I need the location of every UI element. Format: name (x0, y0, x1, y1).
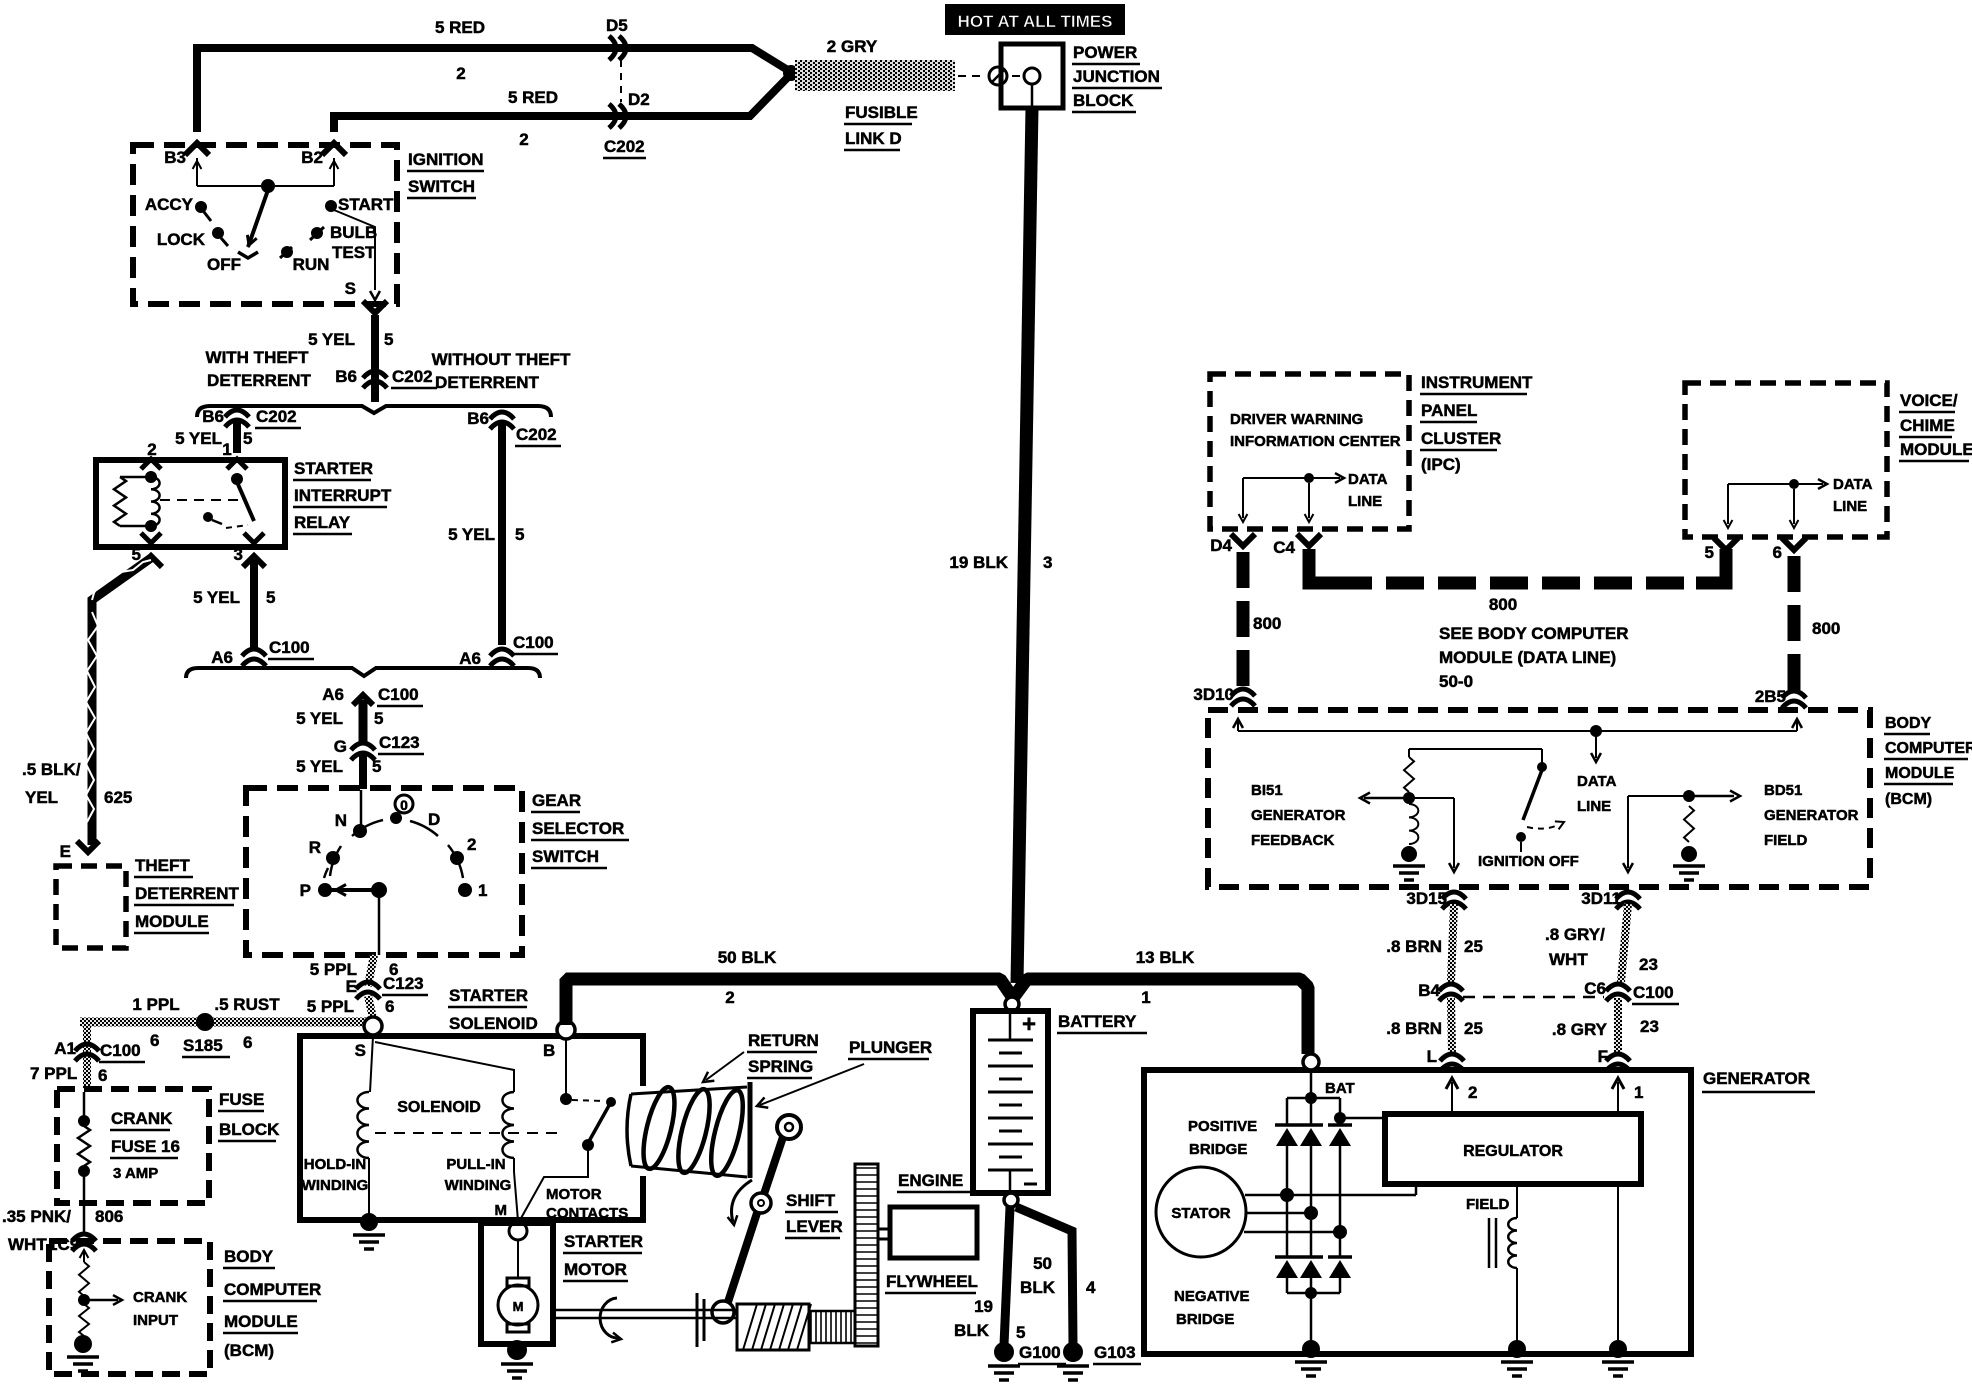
label INSTRUMENT PANEL CLUSTER (IPC) (1420, 373, 1533, 474)
contact 2 (450, 835, 476, 865)
wire 13 BLK into generator (1303, 1054, 1355, 1097)
shaft rotation arrow (600, 1298, 622, 1344)
label BATTERY (1057, 1012, 1147, 1033)
svg-text:FLYWHEEL: FLYWHEEL (886, 1272, 978, 1291)
contact ACCY (145, 195, 211, 221)
svg-text:5: 5 (384, 330, 393, 349)
svg-text:BATTERY: BATTERY (1058, 1012, 1137, 1031)
relay coil bottom junction (145, 520, 157, 532)
label .8 GRY 23 (1552, 1017, 1659, 1039)
svg-text:G103: G103 (1094, 1343, 1136, 1362)
label THEFT DETERRENT MODULE (134, 856, 240, 933)
svg-text:BLOCK: BLOCK (219, 1120, 280, 1139)
svg-text:FIELD: FIELD (1764, 832, 1807, 849)
svg-text:LEVER: LEVER (786, 1217, 843, 1236)
chevron into B2 (322, 143, 346, 155)
svg-text:5: 5 (374, 709, 383, 728)
svg-text:HOT AT ALL TIMES: HOT AT ALL TIMES (958, 12, 1113, 31)
svg-text:WITH THEFT: WITH THEFT (206, 348, 310, 367)
shift lever arrow (728, 1180, 752, 1226)
relay switch blade (203, 482, 254, 528)
selector arc (324, 820, 463, 878)
svg-text:B6: B6 (202, 407, 224, 426)
svg-text:3D15: 3D15 (1406, 889, 1447, 908)
field core bars (1489, 1218, 1496, 1268)
svg-text:RUN: RUN (293, 255, 330, 274)
label 5 YEL under A6 (296, 709, 383, 728)
data trunk 800 right (1788, 556, 1801, 690)
svg-text:SWITCH: SWITCH (408, 177, 475, 196)
negative bridge diodes (1275, 1257, 1352, 1278)
label .8 BRN 25 upper (1386, 937, 1483, 956)
selector wiper arm (330, 882, 387, 898)
svg-text:E: E (60, 842, 71, 861)
starter motor box (481, 1223, 553, 1344)
svg-text:CONTACTS: CONTACTS (546, 1205, 628, 1222)
label GENERATOR (1702, 1069, 1815, 1092)
label DATA LINE vcm (1833, 476, 1873, 515)
svg-text:FIELD: FIELD (1466, 1196, 1509, 1213)
svg-text:5 YEL: 5 YEL (193, 588, 240, 607)
dwic data line (1239, 473, 1344, 522)
connector A6 C100 left (211, 638, 314, 667)
svg-text:MODULE: MODULE (135, 912, 209, 931)
svg-text:(BCM): (BCM) (224, 1341, 274, 1360)
selector output wire (378, 890, 381, 955)
driver warning information center box (1210, 374, 1409, 529)
label 1 PPL (132, 995, 179, 1014)
svg-text:50-0: 50-0 (1439, 672, 1473, 691)
svg-text:C202: C202 (256, 407, 297, 426)
svg-text:WINDING: WINDING (302, 1177, 369, 1194)
svg-text:GENERATOR: GENERATOR (1251, 807, 1346, 824)
connector A6 C100 right (459, 633, 558, 668)
wire START to S (334, 210, 375, 290)
svg-text:3D11: 3D11 (1581, 889, 1621, 908)
HOT AT ALL TIMES banner (945, 4, 1125, 35)
vcm data line (1724, 479, 1827, 528)
label RETURN SPRING (747, 1031, 819, 1078)
wire 13 BLK bus (1013, 979, 1308, 1054)
svg-text:5: 5 (372, 757, 381, 776)
svg-text:WHT: WHT (8, 1235, 47, 1254)
wire 5 RED (circuit 2) from D5 to ignition switch B3 (197, 48, 791, 132)
svg-text:B6: B6 (467, 409, 489, 428)
label 13 BLK (1136, 948, 1195, 1007)
label SEE BODY COMPUTER MODULE (1439, 624, 1629, 691)
svg-text:D5: D5 (606, 16, 628, 35)
label 5 YEL right (448, 525, 524, 544)
splice symbol at fusible link (958, 67, 1020, 85)
ground G100 (994, 1342, 1014, 1362)
svg-text:DETERRENT: DETERRENT (435, 373, 540, 392)
ignition off switch feed (1409, 749, 1547, 772)
contact R (309, 838, 340, 865)
ignition switch box (133, 145, 397, 304)
svg-text:DATA: DATA (1348, 471, 1388, 488)
label .5 RUST (214, 995, 280, 1014)
svg-text:C202: C202 (516, 425, 557, 444)
contact N (335, 811, 367, 838)
label 2 lower (519, 130, 528, 149)
wire pull-in to M (514, 1158, 518, 1221)
pinion gear mesh (809, 1311, 855, 1343)
svg-text:P: P (300, 881, 311, 900)
svg-text:LINK D: LINK D (845, 129, 902, 148)
svg-text:LOCK: LOCK (157, 230, 206, 249)
label BODY COMPUTER MODULE (BCM) right (1884, 715, 1972, 808)
svg-text:B3: B3 (164, 148, 186, 167)
phase A junction (1280, 1188, 1294, 1202)
svg-text:WITHOUT THEFT: WITHOUT THEFT (432, 350, 571, 369)
label S185 (182, 1033, 252, 1057)
power junction block box (1001, 44, 1063, 108)
arrow to plunger (755, 1064, 864, 1111)
dashed link B4 C6 (1463, 996, 1604, 999)
connector at relay 5 (140, 556, 162, 567)
connector 3D15 (1406, 889, 1466, 909)
svg-text:1: 1 (1141, 988, 1150, 1007)
svg-text:DATA: DATA (1577, 773, 1617, 790)
svg-text:6: 6 (385, 997, 394, 1016)
label 50 BLK (718, 948, 777, 1007)
label VOICE/CHIME MODULE (1899, 391, 1972, 461)
svg-text:JUNCTION: JUNCTION (1073, 67, 1160, 86)
label FUSE BLOCK (218, 1090, 280, 1141)
wire .8 GRY/WHT upper (1621, 904, 1628, 982)
power junction block terminal (1024, 68, 1040, 108)
wire to 3D11 (1623, 796, 1689, 872)
label .5 BLK/YEL (22, 760, 81, 807)
label G103 (1093, 1343, 1141, 1364)
B contact junction (560, 1093, 572, 1105)
relay resistor (114, 477, 151, 526)
connector 5 (1705, 538, 1738, 562)
wire B3-B2 common (197, 185, 334, 187)
label 5 YEL under G (296, 757, 381, 776)
connector at relay 3 (243, 556, 265, 567)
svg-text:.8 GRY: .8 GRY (1552, 1020, 1608, 1039)
svg-text:M: M (513, 1299, 524, 1314)
fusible link D wire 2 GRY (stippled) (795, 60, 955, 91)
label WITHOUT THEFT DETERRENT (432, 350, 571, 392)
svg-text:NEGATIVE: NEGATIVE (1174, 1288, 1250, 1305)
battery top terminal (1005, 997, 1019, 1011)
svg-text:COMPUTER: COMPUTER (224, 1280, 321, 1299)
svg-text:3D10: 3D10 (1193, 685, 1234, 704)
label FLYWHEEL (885, 1272, 978, 1293)
svg-text:C123: C123 (383, 974, 424, 993)
label DRIVER WARNING INFORMATION CENTER (1230, 411, 1401, 450)
regulator feed junction (1334, 1112, 1346, 1124)
positive bridge rail (1287, 1098, 1340, 1125)
wire to generator ground (1310, 1293, 1313, 1344)
svg-text:CRANK: CRANK (111, 1109, 173, 1128)
svg-text:BODY: BODY (1885, 715, 1932, 732)
svg-text:.8 BRN: .8 BRN (1386, 1019, 1442, 1038)
label 5 RED upper (435, 18, 485, 37)
svg-text:C100: C100 (269, 638, 310, 657)
crank fuse element (78, 1092, 90, 1203)
theft deterrent module box (56, 866, 126, 948)
terminal B3 (164, 148, 201, 186)
wire 5 YEL to gear switch (359, 754, 367, 789)
label DATA LINE dwic (1348, 471, 1388, 510)
connector 6 (1773, 538, 1806, 562)
svg-text:PLUNGER: PLUNGER (849, 1038, 932, 1057)
connector B6 C202 center (335, 367, 437, 388)
label ENGINE (897, 1171, 972, 1192)
pull-in winding coil (502, 1092, 514, 1158)
label DATA LINE bcm (1577, 773, 1617, 815)
svg-text:B4: B4 (1418, 981, 1440, 1000)
b151 coil (1409, 804, 1418, 844)
label FIELD (1466, 1196, 1509, 1213)
stator phase A (1245, 1184, 1416, 1195)
label .8 BRN 25 lower (1386, 1019, 1483, 1038)
negative bridge legs upper (1287, 1195, 1340, 1257)
engine box (890, 1207, 977, 1258)
svg-text:1: 1 (478, 881, 487, 900)
contact OFF (207, 252, 258, 274)
svg-text:5: 5 (515, 525, 524, 544)
wire 5 PPL lower (368, 996, 373, 1018)
svg-text:50: 50 (1033, 1254, 1052, 1273)
svg-text:SHIFT: SHIFT (786, 1191, 836, 1210)
split brace (197, 406, 551, 417)
svg-text:RETURN: RETURN (748, 1031, 819, 1050)
b151 junction (1403, 792, 1415, 804)
relay terminal 3 (234, 533, 264, 564)
svg-text:A6: A6 (459, 649, 481, 668)
bcm data line bus (1233, 719, 1802, 731)
label REGULATOR (1463, 1143, 1563, 1160)
svg-text:5: 5 (1016, 1323, 1025, 1342)
svg-text:19 BLK: 19 BLK (949, 553, 1008, 572)
svg-text:.35 PNK/: .35 PNK/ (2, 1207, 71, 1226)
bd51 junction (1683, 790, 1695, 802)
svg-text:COMPUTER: COMPUTER (1885, 740, 1972, 757)
generator box (1144, 1070, 1691, 1354)
svg-text:2: 2 (519, 130, 528, 149)
svg-text:SPRING: SPRING (748, 1057, 813, 1076)
svg-text:LINE: LINE (1348, 493, 1382, 510)
svg-text:2: 2 (1468, 1083, 1477, 1102)
connector B6 C202 right branch (467, 409, 561, 446)
connector B6 C202 left branch (202, 407, 301, 428)
label 19 BLK (949, 553, 1008, 572)
svg-text:DATA: DATA (1833, 476, 1873, 493)
ground in BCM (74, 1335, 92, 1353)
b151 ground (1401, 846, 1417, 862)
svg-text:FUSE 16: FUSE 16 (111, 1137, 180, 1156)
svg-text:B: B (543, 1041, 555, 1060)
wire to relay terminal 1 (233, 420, 241, 453)
svg-text:VOICE/: VOICE/ (1900, 391, 1958, 410)
svg-text:6: 6 (243, 1033, 252, 1052)
relay terminal 1 (222, 440, 247, 485)
voice chime module box (1685, 383, 1887, 537)
svg-text:YEL: YEL (25, 788, 58, 807)
body computer module box right (1208, 710, 1870, 887)
svg-text:STARTER: STARTER (449, 986, 528, 1005)
terminal M (495, 1202, 528, 1240)
svg-text:1: 1 (1634, 1083, 1643, 1102)
svg-text:DRIVER WARNING: DRIVER WARNING (1230, 411, 1363, 428)
ignition switch rotor blade (244, 190, 268, 247)
svg-text:DETERRENT: DETERRENT (135, 884, 240, 903)
svg-text:1: 1 (222, 440, 231, 459)
solenoid internal dashed axis (375, 1132, 560, 1134)
label 800 left (1253, 614, 1281, 633)
svg-text:BLK: BLK (1020, 1278, 1056, 1297)
wire 5 RED (circuit 2) from D2 to ignition switch B2 (334, 74, 791, 132)
relay terminal 5 (132, 533, 161, 564)
svg-text:B6: B6 (335, 367, 357, 386)
wire 1 PPL down (83, 1022, 91, 1089)
svg-text:800: 800 (1489, 595, 1517, 614)
svg-text:INTERRUPT: INTERRUPT (294, 486, 392, 505)
drive pinion helix (737, 1304, 811, 1350)
wire 50 BLK bus (566, 979, 1013, 1025)
battery bottom terminal (1004, 1193, 1018, 1207)
svg-text:.5 BLK/: .5 BLK/ (22, 760, 81, 779)
svg-text:2: 2 (467, 835, 476, 854)
svg-text:POWER: POWER (1073, 43, 1137, 62)
body computer module box left (49, 1241, 210, 1374)
svg-text:2: 2 (456, 64, 465, 83)
label HOLD-IN WINDING (302, 1156, 369, 1194)
label 2 upper (456, 64, 465, 83)
label 625 (104, 788, 132, 807)
svg-text:LINE: LINE (1833, 498, 1867, 515)
svg-text:1 PPL: 1 PPL (132, 995, 179, 1014)
hold-in winding coil (357, 1092, 369, 1158)
label 5 RED lower (508, 88, 558, 107)
svg-text:STATOR: STATOR (1171, 1205, 1230, 1222)
svg-text:N: N (335, 811, 347, 830)
label 800 right (1812, 619, 1840, 638)
terminal B2 (301, 148, 338, 186)
svg-text:6: 6 (1773, 543, 1782, 562)
svg-text:STARTER: STARTER (294, 459, 373, 478)
wire 5 YEL right branch (498, 423, 506, 645)
svg-text:2: 2 (147, 440, 156, 459)
negative rail junction (1305, 1287, 1317, 1299)
b151 arrow (1360, 793, 1409, 804)
svg-text:HOLD-IN: HOLD-IN (304, 1156, 367, 1173)
starter solenoid box (300, 1036, 643, 1220)
shaft collar (697, 1293, 704, 1347)
svg-text:S: S (355, 1041, 366, 1060)
svg-text:M: M (495, 1202, 508, 1219)
svg-text:WHT: WHT (1549, 950, 1588, 969)
label FUSIBLE LINK D (844, 103, 918, 150)
arrow to return spring (700, 1052, 744, 1087)
svg-text:C100: C100 (378, 685, 419, 704)
svg-text:OFF: OFF (207, 255, 241, 274)
wire B internal (565, 1040, 567, 1096)
svg-text:FUSIBLE: FUSIBLE (845, 103, 918, 122)
bcm data line arrow (1591, 731, 1601, 762)
label .8 GRY/WHT 23 (1545, 925, 1658, 974)
wire to regulator (1340, 1118, 1385, 1125)
label 7 PPL (30, 1064, 107, 1085)
wire 806 below fuse (83, 1203, 86, 1233)
wire .8 BRN 25 upper (1451, 904, 1454, 982)
connector D2 (609, 90, 650, 128)
label STATOR (1171, 1205, 1230, 1222)
crank input arrow (84, 1295, 122, 1305)
label 3 (1043, 553, 1052, 572)
wire blade to M (520, 1149, 588, 1220)
starter interrupt relay box (96, 460, 285, 547)
positive bridge legs (1287, 1146, 1340, 1232)
wire .8 BRN 25 lower (1451, 998, 1452, 1052)
label SOLENOID (397, 1099, 481, 1116)
stator phase B (1246, 1212, 1311, 1215)
label 5 YEL left (175, 429, 252, 448)
label SHIFT LEVER (785, 1191, 843, 1238)
svg-text:SOLENOID: SOLENOID (397, 1099, 481, 1116)
svg-text:.8 GRY/: .8 GRY/ (1545, 925, 1605, 944)
wire 1 PPL / .5 RUST horizontal (80, 1018, 368, 1027)
label .35 PNK/WHT 1C9 (2, 1207, 79, 1254)
svg-text:IGNITION OFF: IGNITION OFF (1478, 853, 1579, 870)
svg-text:800: 800 (1812, 619, 1840, 638)
connector G C123 (334, 733, 424, 760)
svg-text:6: 6 (98, 1066, 107, 1085)
connector F (1598, 1047, 1630, 1071)
battery minus (1024, 1183, 1037, 1186)
svg-text:INFORMATION CENTER: INFORMATION CENTER (1230, 433, 1401, 450)
svg-text:5 RED: 5 RED (435, 18, 485, 37)
wire 5 YEL to C123 (359, 700, 368, 744)
svg-text:R: R (309, 838, 321, 857)
svg-text:2: 2 (725, 988, 734, 1007)
svg-text:GENERATOR: GENERATOR (1703, 1069, 1810, 1088)
connector B4 (1418, 981, 1463, 1001)
wire 5 YEL from relay 3 (250, 558, 258, 648)
label CRANK FUSE 16 3 AMP (110, 1109, 180, 1182)
connector 2B5 (1755, 687, 1806, 708)
generator terminal 2 (1446, 1078, 1478, 1114)
svg-text:5 YEL: 5 YEL (448, 525, 495, 544)
chevron S exit (363, 301, 387, 313)
phase C junction (1333, 1225, 1347, 1239)
svg-text:GENERATOR: GENERATOR (1764, 807, 1859, 824)
connector A6 C100 bottom (322, 685, 423, 706)
bd51 ground (1681, 846, 1697, 862)
generator terminal 1 (1612, 1078, 1644, 1114)
bd51 arrow (1689, 791, 1740, 802)
svg-text:D2: D2 (628, 90, 650, 109)
label BD51 GENERATOR FIELD (1764, 782, 1859, 849)
label 5 PPL upper (310, 960, 399, 979)
wire 5 YEL from S (371, 315, 379, 402)
svg-text:19: 19 (974, 1297, 993, 1316)
contact 1 (458, 881, 487, 900)
label G100 (1018, 1343, 1066, 1364)
label PLUNGER (848, 1038, 932, 1059)
svg-text:START: START (338, 195, 394, 214)
svg-text:3: 3 (1043, 553, 1052, 572)
field coil (1508, 1184, 1517, 1344)
label 5 PPL lower (307, 997, 395, 1016)
diagonal to pull-in (375, 1042, 514, 1092)
svg-text:D4: D4 (1210, 536, 1232, 555)
svg-text:3 AMP: 3 AMP (113, 1165, 158, 1182)
